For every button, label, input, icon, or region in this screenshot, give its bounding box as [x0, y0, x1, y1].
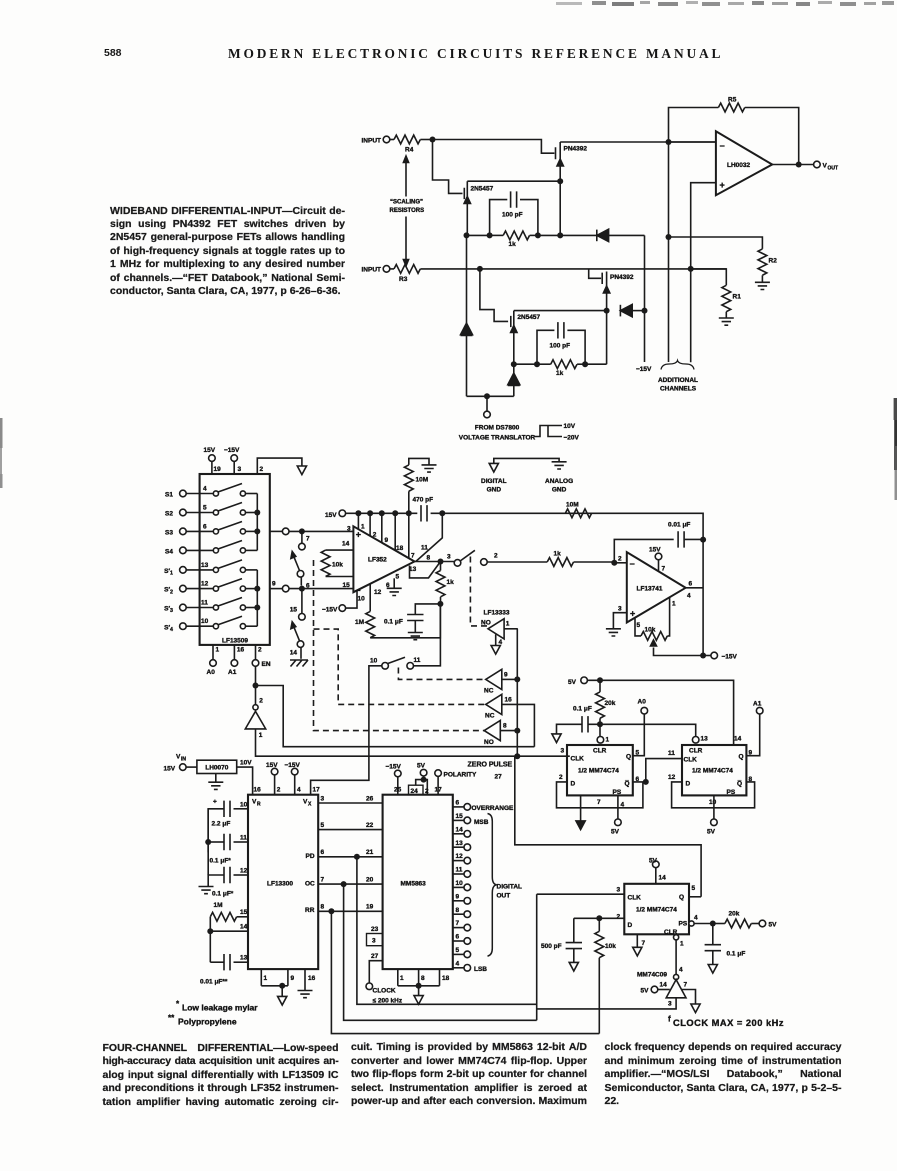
wire pin5 to 22 — [318, 822, 382, 830]
svg-text:20k: 20k — [605, 700, 616, 707]
dashed control arm3-2 to NO 1 — [470, 557, 488, 626]
svg-text:15: 15 — [456, 813, 464, 820]
MM5863 output pin 7 — [453, 920, 471, 931]
mux channel S1' — [164, 560, 257, 577]
pin stubs into LF352 top edge — [358, 513, 408, 558]
pin 1 A0 terminal — [207, 645, 220, 676]
svg-text:RR: RR — [305, 907, 315, 914]
svg-text:PS: PS — [613, 789, 622, 796]
pin labels 6 4 — [687, 581, 693, 600]
svg-text:S′2: S′2 — [164, 587, 173, 596]
MM5863 pin 25 -15V — [386, 764, 402, 795]
node 5V pins — [421, 777, 427, 783]
svg-text:Q: Q — [626, 754, 631, 761]
node switch bus 9 — [514, 676, 520, 682]
svg-text:16: 16 — [505, 697, 513, 704]
svg-text:470 pF: 470 pF — [413, 497, 434, 504]
node bus pin1 — [355, 510, 361, 516]
svg-text:2: 2 — [559, 774, 563, 781]
diode upper (to -15V rail) — [597, 229, 645, 241]
dashed control 7-6 switch V1 — [314, 560, 485, 731]
pin numbers LF352 top — [342, 524, 451, 603]
svg-text:R2: R2 — [769, 258, 778, 265]
node MM5863 gnd — [416, 983, 422, 989]
svg-text:CLK: CLK — [684, 757, 698, 764]
node R2 tap — [666, 234, 672, 240]
svg-text:5V: 5V — [707, 829, 716, 836]
svg-text:4: 4 — [456, 960, 460, 967]
zero switch arm 7-6 — [291, 552, 304, 586]
wire CLR tie to FF1 and FF2 — [600, 724, 696, 736]
svg-text:5: 5 — [321, 822, 325, 829]
svg-text:7: 7 — [306, 536, 310, 543]
svg-text:15V: 15V — [649, 547, 661, 554]
svg-text:CLK: CLK — [628, 895, 642, 902]
capacitor 0.1 uF PS — [705, 924, 746, 965]
svg-text:16: 16 — [308, 975, 316, 982]
diode lower (to -15V rail) — [620, 304, 644, 316]
5V terminal PS — [759, 920, 777, 928]
svg-text:14: 14 — [342, 541, 350, 548]
svg-text:GND: GND — [552, 487, 567, 494]
svg-text:13: 13 — [240, 955, 248, 962]
FF1 pin labels — [559, 748, 640, 809]
svg-text:17: 17 — [313, 787, 321, 794]
svg-text:Q: Q — [679, 894, 684, 901]
wire RR line — [331, 911, 599, 1033]
header title — [228, 46, 723, 62]
svg-text:ZERO PULSE: ZERO PULSE — [468, 762, 513, 769]
dashed control V4 to NC 9 — [398, 668, 484, 680]
wire PD pin6 to 21 — [318, 849, 382, 857]
svg-text:5V: 5V — [641, 988, 650, 995]
svg-text:10: 10 — [201, 618, 209, 625]
right edge scan artifact — [894, 398, 897, 500]
svg-text:CLR: CLR — [689, 748, 703, 755]
svg-text:11: 11 — [240, 835, 247, 842]
svg-text:A0: A0 — [638, 699, 647, 706]
FF3 D lead — [574, 917, 625, 919]
gate MM74C09 — [637, 972, 686, 998]
digital out brace — [488, 814, 523, 957]
svg-text:1k: 1k — [554, 551, 562, 558]
node output A — [299, 528, 305, 534]
MM5863 pin 27 clock — [366, 953, 403, 1005]
svg-text:5V: 5V — [649, 858, 658, 865]
wire OC pin7 to 20 — [318, 877, 382, 885]
node FF1 Qbar — [643, 779, 649, 785]
wire output — [772, 164, 814, 166]
svg-text:+: + — [720, 180, 725, 190]
terminal from DS7800 — [459, 396, 536, 441]
node bus pin18 — [392, 510, 398, 516]
node output B — [299, 586, 305, 592]
MM5863 bottom pin 8 — [398, 969, 440, 986]
svg-text:3: 3 — [561, 748, 565, 755]
resistor 20k pullup — [596, 680, 616, 724]
node after R4 — [430, 137, 436, 143]
svg-text:0.1 μF*: 0.1 μF* — [210, 858, 232, 865]
wire left bus — [207, 809, 209, 875]
svg-text:9: 9 — [456, 893, 460, 900]
svg-text:8: 8 — [421, 975, 425, 982]
supply bus wire — [346, 513, 704, 539]
svg-text:10V: 10V — [240, 760, 252, 767]
wire RC2 row / source vertical — [514, 311, 607, 365]
svg-text:“SCALING”: “SCALING” — [390, 200, 423, 206]
additional channels brace — [658, 361, 698, 393]
diode clamp middle vertical — [508, 364, 520, 396]
VIN terminal — [164, 754, 197, 773]
svg-text:1: 1 — [680, 941, 684, 948]
svg-text:VOLTAGE TRANSLATOR: VOLTAGE TRANSLATOR — [459, 435, 536, 442]
node 5V 20k — [597, 677, 603, 683]
svg-text:24: 24 — [411, 788, 419, 795]
svg-text:5V: 5V — [417, 763, 426, 770]
svg-text:11: 11 — [201, 600, 208, 607]
wire 1M bottom to zero cap node — [370, 604, 440, 638]
FF1 PS 5V terminal — [611, 795, 621, 835]
svg-text:−15V: −15V — [322, 607, 338, 614]
node PS 20k — [710, 921, 716, 927]
node LF13741 inverting — [611, 560, 617, 566]
FF2 D to Qbar wrap — [672, 782, 755, 808]
svg-text:S1: S1 — [165, 492, 173, 499]
wire non-inverting input — [691, 183, 716, 363]
svg-text:LSB: LSB — [474, 966, 487, 973]
wire RR pin8 to 19 — [318, 904, 382, 912]
MM5863 output pin 14 — [453, 826, 471, 837]
svg-text:14: 14 — [660, 982, 668, 989]
wire R3 bus to right — [480, 268, 726, 270]
ground R1 — [719, 318, 734, 325]
transistor PN4392 (upper) — [556, 142, 588, 182]
svg-text:−15V: −15V — [386, 764, 402, 771]
svg-text:0.01 μF**: 0.01 μF** — [200, 979, 228, 986]
terminal 3 — [454, 560, 461, 567]
node bus A at S2 — [254, 510, 260, 516]
svg-text:100 pF: 100 pF — [550, 343, 571, 350]
wire switch 10 to Vx pin 17 — [311, 666, 382, 795]
svg-text:15V: 15V — [325, 512, 337, 519]
resistor 1k to LF13741 — [547, 551, 614, 567]
svg-text:S′1: S′1 — [164, 568, 173, 577]
svg-text:5: 5 — [637, 622, 641, 629]
capacitor 2.2 uF pin 10 — [208, 799, 248, 853]
output wire LF13741 — [686, 587, 704, 589]
mux channel S3 — [165, 522, 257, 537]
svg-text:LF13300: LF13300 — [267, 881, 293, 888]
svg-text:1/2 MM74C74: 1/2 MM74C74 — [692, 768, 733, 775]
node CLR tie — [597, 721, 603, 727]
node left bus pin 11 — [205, 839, 211, 845]
svg-text:6: 6 — [203, 524, 207, 531]
svg-text:S′4: S′4 — [164, 624, 173, 633]
transistor PN4392 (lower) — [602, 272, 634, 311]
resistor 10k input (pin 14) — [321, 550, 353, 576]
svg-text:9: 9 — [291, 975, 295, 982]
svg-text:LF13333: LF13333 — [484, 610, 510, 617]
svg-text:2: 2 — [494, 553, 498, 560]
digital gnd arrow 0.1uF PS — [708, 965, 717, 974]
svg-text:11: 11 — [668, 750, 675, 757]
svg-text:R1: R1 — [733, 294, 742, 301]
svg-text:CLK: CLK — [571, 756, 585, 763]
wire 2N5457 drain to PN4392 source — [467, 180, 560, 182]
svg-text:10M: 10M — [566, 502, 579, 509]
node -15V row — [700, 653, 706, 659]
svg-text:6: 6 — [456, 934, 460, 941]
wire EN to buffer and L_a — [256, 666, 535, 747]
svg-text:MM74C09: MM74C09 — [637, 972, 667, 979]
wire inverting input — [669, 141, 716, 143]
wire Vx pin3 to MM5863 26 — [318, 796, 382, 804]
15V supply terminal LF352 — [325, 510, 346, 519]
pot wiper arrow — [651, 640, 704, 656]
node R3 bus at + input vertical — [688, 266, 694, 272]
wire -15V rail elbow — [644, 235, 646, 362]
FF3 Q lead to loop — [689, 896, 701, 898]
MM5863 output pin 13 — [453, 840, 471, 851]
resistor R3 — [390, 265, 480, 284]
svg-text:CLR: CLR — [593, 748, 607, 755]
digital gnd arrow 500pF — [569, 962, 578, 971]
svg-text:3: 3 — [238, 466, 242, 473]
svg-text:ANALOG: ANALOG — [545, 478, 573, 485]
svg-text:3: 3 — [321, 796, 325, 803]
svg-text:19: 19 — [214, 466, 222, 473]
5V terminal 20k — [568, 677, 734, 744]
analog gnd legend — [545, 462, 573, 494]
svg-text:2.2 μF: 2.2 μF — [212, 821, 231, 828]
MM5863 output pin 8 — [453, 907, 471, 918]
svg-text:S3: S3 — [165, 530, 173, 537]
svg-text:2: 2 — [618, 556, 622, 563]
wire branch to PN4392 lower gate — [589, 269, 601, 278]
svg-text:NC: NC — [484, 688, 494, 695]
svg-text:500 pF: 500 pF — [541, 943, 562, 950]
caption four-channel col 2 — [351, 1041, 587, 1109]
footnote polypropylene — [168, 1014, 237, 1027]
wire PD line — [357, 857, 537, 1005]
analog switch LF13333 NC 16 — [485, 694, 534, 746]
capacitor 0.1 uF zero — [384, 604, 440, 633]
svg-text:GND: GND — [487, 487, 502, 494]
node bus 10M branch — [406, 510, 412, 516]
node RC2 right — [582, 361, 588, 367]
-15V terminal LF352 — [322, 591, 357, 614]
svg-text:OC: OC — [305, 881, 315, 888]
wire 2N5457 lower drain to PN4392 lower source — [514, 310, 607, 312]
node RC2 at source — [511, 361, 517, 367]
MM5863 output pin 11 — [453, 867, 471, 878]
svg-text:1: 1 — [216, 647, 220, 654]
svg-text:10: 10 — [358, 596, 366, 603]
svg-text:+: + — [356, 530, 361, 540]
node bus B at S3' — [254, 605, 260, 611]
MM5863 output pin 4 LSB — [453, 960, 488, 973]
resistor R1 — [691, 269, 741, 318]
svg-text:5: 5 — [456, 947, 460, 954]
svg-text:4: 4 — [679, 967, 683, 974]
node EN branch — [253, 683, 259, 689]
svg-text:27: 27 — [371, 953, 379, 960]
svg-text:12: 12 — [456, 853, 464, 860]
waveform pulse symbol — [534, 423, 580, 442]
svg-text:9: 9 — [272, 581, 276, 588]
svg-text:CHANNELS: CHANNELS — [660, 386, 697, 393]
digital gnd arrow LF13300 — [278, 986, 287, 1005]
wire source down to RC row — [559, 181, 561, 235]
FF3 CLK lead — [537, 893, 625, 895]
svg-text:17: 17 — [435, 787, 443, 794]
svg-text:11: 11 — [414, 657, 421, 664]
svg-text:15V: 15V — [164, 766, 176, 773]
resistor 1k (lower) — [537, 360, 585, 377]
pin 2 digital ground arrow — [257, 458, 306, 475]
svg-text:16: 16 — [254, 787, 262, 794]
svg-text:−: − — [355, 586, 360, 596]
svg-text:1: 1 — [259, 732, 263, 739]
zero switch pin 7 stub — [299, 531, 310, 549]
svg-text:LH0070: LH0070 — [205, 765, 229, 772]
svg-text:1k: 1k — [556, 370, 564, 377]
svg-text:R5: R5 — [728, 97, 737, 104]
node RC row left — [464, 232, 470, 238]
A0 terminal — [633, 699, 648, 756]
svg-text:1: 1 — [361, 524, 365, 531]
svg-text:8: 8 — [456, 907, 460, 914]
svg-text:LF13509: LF13509 — [222, 638, 248, 645]
+ input ground — [606, 606, 627, 637]
svg-text:13: 13 — [701, 736, 709, 743]
node source junction upper — [557, 178, 563, 184]
svg-text:6: 6 — [306, 583, 310, 590]
svg-text:1: 1 — [264, 975, 268, 982]
svg-text:9: 9 — [749, 750, 753, 757]
svg-text:A1: A1 — [753, 701, 762, 708]
svg-text:10k: 10k — [605, 943, 616, 950]
svg-text:19: 19 — [366, 904, 374, 911]
svg-text:LF13741: LF13741 — [637, 586, 663, 593]
ground 0.1 uF — [408, 633, 423, 640]
analog switch LF13333 NO 1 — [481, 610, 518, 655]
node R3 gate branch — [477, 266, 483, 272]
svg-text:22: 22 — [366, 822, 374, 829]
svg-text:25: 25 — [394, 787, 402, 794]
-15V terminal pin 4 — [285, 762, 302, 795]
svg-text:12: 12 — [668, 774, 676, 781]
svg-text:A1: A1 — [228, 669, 237, 676]
svg-text:5V: 5V — [611, 829, 620, 836]
LF13300 bottom pin 9 — [261, 969, 294, 986]
5V terminal C09 — [641, 982, 670, 995]
svg-text:9: 9 — [504, 672, 508, 679]
svg-text:R4: R4 — [405, 147, 414, 154]
FF1 D to Qbar wrap — [557, 782, 643, 808]
svg-text:5V: 5V — [769, 922, 778, 929]
svg-text:16: 16 — [237, 647, 245, 654]
mux channel S2 — [165, 503, 257, 518]
caption four-channel col 1 — [103, 1042, 339, 1110]
header page number — [104, 47, 122, 59]
svg-text:18: 18 — [396, 545, 404, 552]
-15V supply terminal — [224, 447, 242, 474]
svg-text:INPUT: INPUT — [362, 137, 382, 144]
svg-text:11: 11 — [456, 867, 463, 874]
svg-text:OVERRANGE: OVERRANGE — [472, 805, 515, 812]
LF13300 pin 16 analog gnd — [298, 969, 316, 998]
wire translator row — [467, 395, 514, 397]
svg-text:7: 7 — [662, 566, 666, 573]
-15V terminal LF13741 — [703, 652, 737, 660]
node RC right — [535, 232, 541, 238]
node RR branch — [328, 908, 334, 914]
wire OC line — [344, 884, 537, 1020]
svg-text:6: 6 — [689, 581, 693, 588]
analog switch LF13333 NC 9 — [484, 669, 517, 694]
svg-text:+: + — [213, 799, 217, 806]
multiplexer LF13509 box — [200, 474, 270, 645]
resistor 20k PS — [713, 911, 760, 928]
svg-text:PS: PS — [727, 789, 736, 796]
wire zero pulse to FF3 Q loop — [515, 756, 701, 897]
capacitor 100 pF (lower) — [537, 322, 585, 364]
output terminal VOUT — [814, 161, 838, 171]
analog switch LF13333 NO 8 — [484, 721, 517, 747]
pin 16 A1 terminal — [228, 645, 245, 676]
svg-text:8: 8 — [427, 555, 431, 562]
svg-text:4: 4 — [499, 639, 503, 646]
svg-text:3: 3 — [447, 554, 451, 561]
svg-text:PD: PD — [306, 853, 315, 860]
svg-text:−15V: −15V — [636, 366, 652, 373]
svg-text:NC: NC — [485, 713, 495, 720]
svg-text:2N5457: 2N5457 — [471, 186, 494, 193]
mux channel S3' — [164, 598, 257, 615]
svg-text:4: 4 — [203, 486, 207, 493]
svg-text:15: 15 — [240, 909, 248, 916]
svg-text:D: D — [571, 781, 576, 788]
5V terminal MM5863 — [417, 763, 427, 780]
regulator LH0070 — [197, 760, 237, 773]
FF2 CLR circle pin 13 — [692, 736, 708, 744]
svg-text:DIGITAL: DIGITAL — [497, 884, 523, 891]
MM5863 output pin 6 OVERRANGE — [453, 800, 514, 813]
svg-text:2: 2 — [260, 466, 264, 473]
node bus A at S3 — [254, 528, 260, 534]
node zero cap — [437, 601, 443, 607]
svg-text:≤ 200 kHz: ≤ 200 kHz — [373, 998, 403, 1005]
polarity terminal pin 17 — [435, 770, 478, 795]
caption four-channel col 3 — [605, 1041, 842, 1109]
svg-text:1/2 MM74C74: 1/2 MM74C74 — [578, 768, 619, 775]
svg-text:Polypropylene: Polypropylene — [178, 1017, 237, 1027]
15V terminal LF13741 — [649, 547, 666, 573]
mux channel S4 — [165, 541, 257, 556]
input terminal bottom — [362, 266, 390, 274]
wire LH0070 to pin 16 — [237, 767, 253, 795]
svg-text:−15V: −15V — [224, 447, 240, 454]
resistor R2 — [669, 237, 778, 282]
zero switch pin 15 stub — [290, 589, 305, 621]
ground LH0070 — [208, 774, 223, 790]
digital gnd arrow 0.1uF — [552, 734, 561, 743]
op-amp LF352 — [353, 526, 414, 595]
wire input row to PN4392 gate — [433, 140, 555, 154]
svg-text:3: 3 — [617, 887, 621, 894]
svg-text:8: 8 — [321, 904, 325, 911]
